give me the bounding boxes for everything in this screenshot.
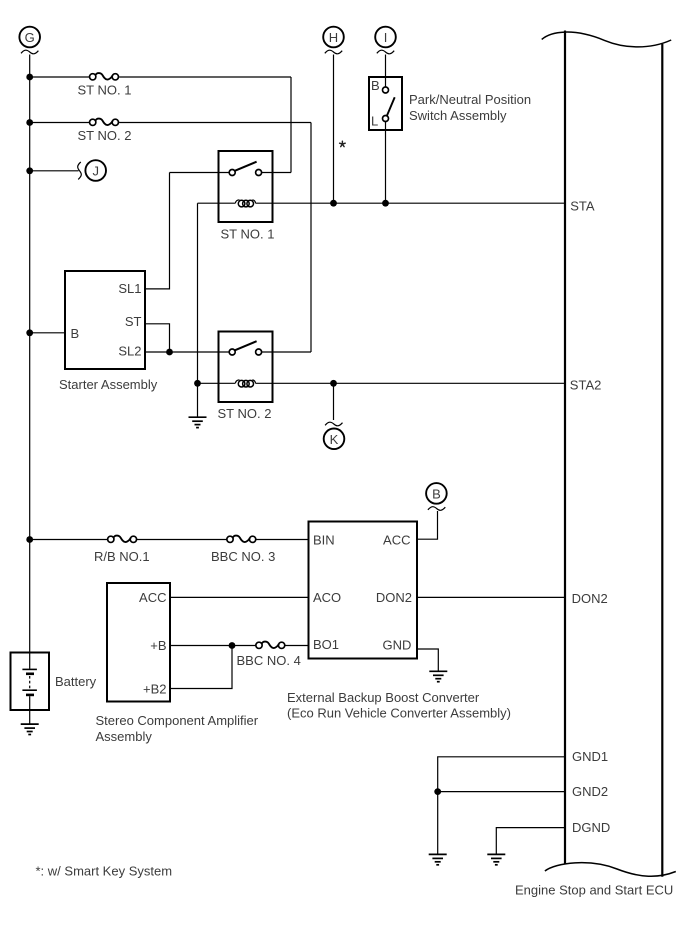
relay ST NO. 1 contact — [229, 170, 235, 176]
svg-text:Engine Stop and Start ECU: Engine Stop and Start ECU — [515, 882, 673, 897]
junction: H / STA — [330, 200, 337, 207]
junction: G feed / fuse2 — [26, 119, 33, 126]
wire: battery feed to starter B — [30, 332, 65, 334]
battery — [11, 653, 50, 724]
wire: ST to SL2 node — [145, 324, 170, 352]
junction: G feed / fuse1 — [26, 74, 33, 81]
svg-text:GND1: GND1 — [572, 749, 608, 764]
svg-text:ST NO. 1: ST NO. 1 — [221, 227, 275, 242]
wire: relay1 contact leads — [170, 172, 292, 174]
wire: SL1 to relay1 contact — [145, 173, 170, 289]
svg-text:+B: +B — [150, 638, 166, 653]
wire: drop to connector K — [333, 383, 335, 420]
wire: lower feed row to BIN — [30, 539, 309, 541]
svg-text:ST NO. 2: ST NO. 2 — [78, 128, 132, 143]
svg-text:GND: GND — [383, 638, 412, 653]
connector J — [78, 160, 106, 181]
svg-text:(Eco Run Vehicle Converter Ass: (Eco Run Vehicle Converter Assembly) — [287, 705, 511, 720]
junction: ST / SL2 — [166, 349, 173, 356]
svg-text:GND2: GND2 — [572, 784, 608, 799]
svg-text:ACC: ACC — [139, 590, 166, 605]
junction: GND1 / GND2 — [434, 788, 441, 795]
svg-text:B: B — [71, 326, 80, 341]
wire: I drop into park/neutral switch — [385, 55, 387, 88]
svg-text:L: L — [371, 114, 378, 129]
ground: relay coils — [189, 417, 207, 427]
svg-text:ST: ST — [125, 314, 142, 329]
svg-text:*: w/ Smart Key System: *: w/ Smart Key System — [36, 863, 173, 878]
fuse BBC NO. 3 — [227, 536, 256, 543]
svg-text:+B2: +B2 — [143, 682, 167, 697]
svg-text:BBC NO. 4: BBC NO. 4 — [237, 653, 301, 668]
svg-text:Assembly: Assembly — [96, 729, 153, 744]
wire: ACC pin up to connector B — [417, 511, 438, 539]
connector H — [323, 27, 344, 54]
svg-text:STA: STA — [570, 198, 595, 213]
svg-text:ST NO. 2: ST NO. 2 — [218, 406, 272, 421]
relay ST NO. 2 contact — [229, 349, 235, 355]
connector B — [426, 483, 447, 510]
svg-text:I: I — [384, 30, 388, 45]
switch Park/Neutral Position Switch Assembly — [369, 77, 402, 130]
wire: park/neutral L to STA line — [385, 122, 387, 204]
wire: relay2 right contact up to fuse row 2 — [262, 351, 311, 353]
wire: to connector J — [30, 170, 79, 172]
relay ST NO. 2 — [219, 332, 273, 403]
junction: I / STA — [382, 200, 389, 207]
fuse BBC NO. 4 — [256, 642, 285, 649]
svg-text:STA2: STA2 — [570, 378, 602, 393]
svg-text:DON2: DON2 — [376, 590, 412, 605]
wire: fuse row 2 — [30, 123, 311, 353]
ground: GND2 — [429, 854, 447, 864]
svg-text:H: H — [329, 30, 338, 45]
junction: coil ground / relay2 coil — [194, 380, 201, 387]
ground: battery — [21, 724, 39, 734]
relay ST NO. 2 coil — [235, 380, 239, 383]
svg-text:ST NO. 1: ST NO. 1 — [78, 83, 132, 98]
svg-text:Stereo Component Amplifier: Stereo Component Amplifier — [96, 713, 259, 728]
fuse R/B NO.1 — [108, 536, 137, 543]
wire: GND2 — [438, 792, 565, 854]
ECU: Engine Stop and Start ECU — [542, 31, 676, 877]
wire: +B2 up to +B node — [170, 646, 232, 689]
junction: G feed / starter B — [26, 329, 33, 336]
svg-text:SL2: SL2 — [118, 344, 141, 359]
svg-text:B: B — [432, 487, 441, 502]
connector I — [375, 27, 396, 54]
svg-text:ACO: ACO — [313, 590, 341, 605]
svg-text:DON2: DON2 — [572, 591, 608, 606]
wire: coil ground bus — [197, 203, 199, 417]
svg-text:B: B — [371, 78, 380, 93]
ECU right bus line — [661, 44, 663, 877]
junction: G feed / J — [26, 167, 33, 174]
wire: fuse row 1 — [30, 77, 291, 173]
wire: STA2 line from coil to ECU — [198, 382, 566, 384]
svg-text:BIN: BIN — [313, 532, 335, 547]
svg-text:External Backup Boost Converte: External Backup Boost Converter — [287, 690, 480, 705]
fuse ST NO. 1 — [90, 73, 119, 80]
junction: feed / lower row — [26, 536, 33, 543]
External Backup Boost Converter box — [309, 522, 418, 659]
svg-text:Switch Assembly: Switch Assembly — [409, 108, 507, 123]
svg-text:Starter Assembly: Starter Assembly — [59, 377, 158, 392]
ECU top break wave — [542, 32, 672, 47]
Stereo Component Amplifier Assembly box — [107, 583, 170, 702]
svg-text:K: K — [330, 432, 339, 447]
fuse ST NO. 2 — [90, 119, 119, 126]
ECU bottom break wave — [545, 863, 676, 877]
wire: ACO row — [170, 596, 309, 598]
wire: +B / BO1 row — [170, 645, 309, 647]
svg-text:BBC NO. 3: BBC NO. 3 — [211, 549, 275, 564]
relay ST NO. 1 coil — [235, 200, 239, 203]
svg-text:Park/Neutral Position: Park/Neutral Position — [409, 92, 531, 107]
svg-text:G: G — [25, 30, 35, 45]
svg-text:J: J — [92, 164, 99, 179]
ground: DGND — [487, 854, 505, 864]
svg-text:DGND: DGND — [572, 820, 610, 835]
wire: SL2 to relay2 contact — [145, 351, 229, 353]
junction: +B / +B2 — [229, 642, 236, 649]
junction: K / STA2 — [330, 380, 337, 387]
svg-text:Battery: Battery — [55, 674, 97, 689]
relay ST NO. 1 — [219, 151, 273, 222]
connector G — [19, 27, 40, 54]
ground: converter GND — [429, 671, 447, 681]
note: asterisk for smart key — [340, 141, 346, 146]
wire: GND1 — [438, 757, 565, 792]
svg-text:BO1: BO1 — [313, 637, 339, 652]
wire: DGND — [496, 828, 565, 854]
ECU left bus line — [564, 31, 566, 864]
svg-text:SL1: SL1 — [118, 281, 141, 296]
connector K — [324, 422, 345, 449]
wire: converter GND pin — [417, 649, 438, 671]
wire: main feed vertical from G to battery — [29, 55, 31, 669]
wire: STA line from coil to ECU — [198, 202, 566, 204]
wire: H drop to STA line — [333, 55, 335, 204]
svg-text:ACC: ACC — [383, 532, 410, 547]
wire: DON2 row to ECU — [417, 596, 565, 598]
Starter Assembly box — [65, 271, 145, 369]
svg-text:R/B NO.1: R/B NO.1 — [94, 549, 150, 564]
